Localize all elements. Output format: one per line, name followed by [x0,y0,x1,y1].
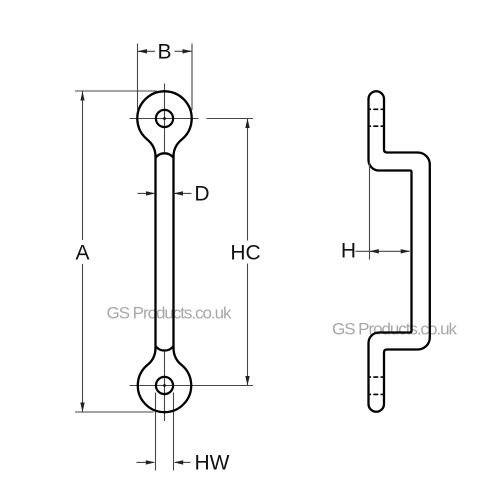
svg-text:H: H [341,240,356,263]
H dim line [356,250,410,252]
HW right arrowhead [174,460,184,464]
bottom lug horizontal centerline [130,385,254,387]
HC top arrowhead [245,119,249,129]
B dim line right segment [175,50,193,52]
bottom tab hole hidden line lower [369,393,385,395]
HC bottom arrowhead [245,376,249,386]
H right arrowhead [401,249,411,253]
H extension line [369,162,371,260]
centerlines front view [130,84,254,422]
B right extension line [191,44,193,111]
front view outer profile: top lug circle with neck fillets and shaft sides [137,91,191,412]
svg-text:B: B [157,41,171,64]
shaft left edge [154,156,156,348]
top tab hole hidden line lower [369,125,385,127]
D left leader [138,192,155,194]
dimension HC [247,119,249,386]
svg-text:A: A [75,242,89,265]
top neck dome arc [156,153,174,157]
side view profile [369,91,430,412]
top lug hole center dot [163,117,166,120]
top lug horizontal centerline [130,118,199,120]
HW left arrowhead [146,460,156,464]
top lug vertical centerline [164,84,166,153]
side view strap outline [369,91,430,412]
dimension HW [137,461,191,463]
HW extension lines [156,393,174,471]
HC dim line upper segment [247,119,249,241]
A dim line lower segment [82,264,84,412]
bottom lug hole center dot [163,384,166,387]
D right arrowhead [174,191,184,195]
A top extension line [75,90,157,92]
bottom lug hole [156,377,173,394]
A bottom extension line [75,411,154,413]
top lug outer profile [137,91,191,156]
B right arrowhead [183,49,193,53]
hidden hole lines top tab [369,109,385,394]
dimension B [138,44,193,111]
B left arrowhead [138,49,148,53]
dimension A [75,91,157,412]
top tab hole hidden line upper [369,108,385,110]
top lug centerline extension to HC [206,118,253,120]
B dim line left segment [138,50,156,52]
dimension D [138,192,192,194]
shaft right edge [172,156,174,348]
D right leader [175,192,192,194]
svg-text:D: D [194,183,209,206]
B left extension line [137,44,139,111]
bottom lug vertical centerline [164,351,166,421]
H left arrowhead [369,249,379,253]
bottom neck dome arc [156,346,174,351]
A dim line upper segment [82,91,84,240]
HW right leader [175,461,190,463]
svg-text:GS Products.co.uk: GS Products.co.uk [332,320,457,339]
svg-text:GS Products.co.uk: GS Products.co.uk [107,304,232,323]
HW right extension line [173,393,175,471]
bottom tab hole hidden line upper [369,376,385,378]
top lug hole [156,110,173,127]
HC dim line lower segment [247,264,249,386]
bottom lug outer profile [138,348,191,412]
HW left extension line [155,393,157,471]
A top arrowhead [80,91,84,100]
svg-text:HC: HC [230,242,260,265]
D left arrowhead [146,191,156,195]
dimension H [356,162,410,260]
svg-text:HW: HW [195,452,230,475]
HW left leader [137,461,154,463]
A bottom arrowhead [80,403,84,413]
